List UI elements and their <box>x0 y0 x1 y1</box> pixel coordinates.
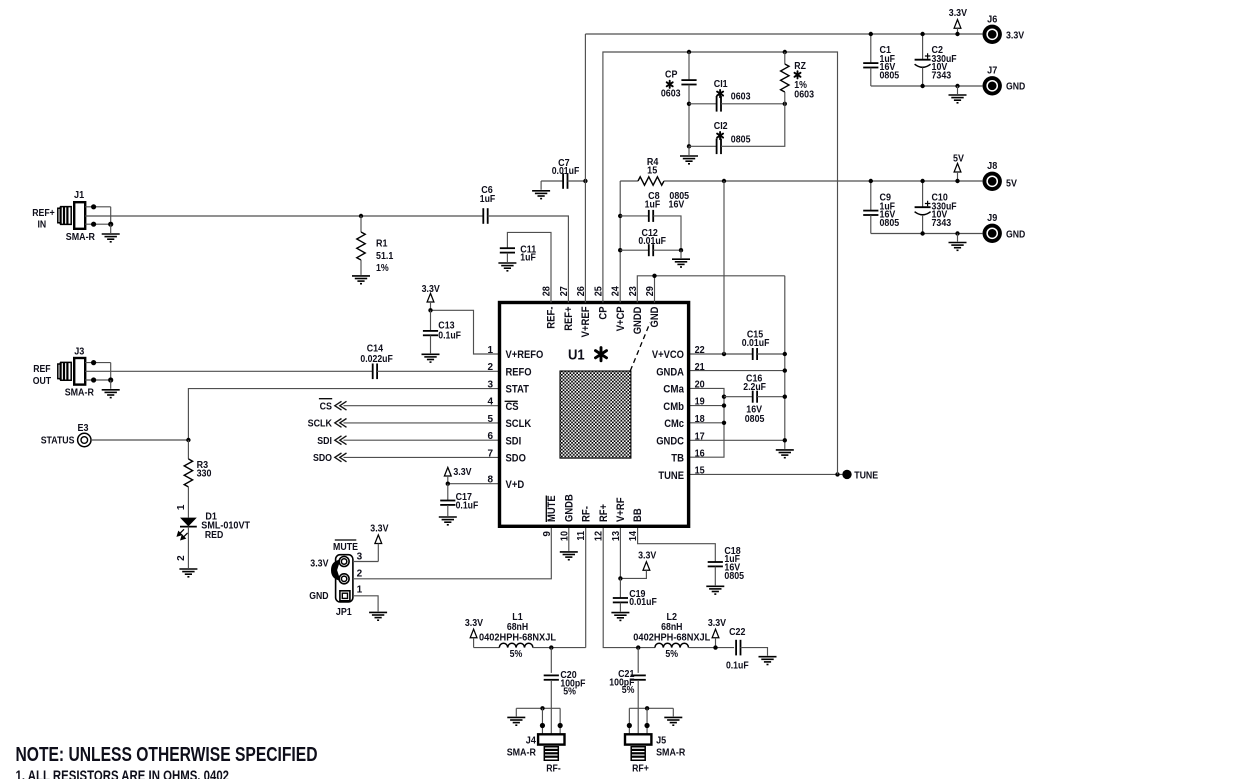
svg-text:0603: 0603 <box>661 88 681 99</box>
wire GNDD/GND to ground bus <box>637 276 785 303</box>
capacitor C9 <box>863 181 899 234</box>
svg-text:7: 7 <box>487 448 493 459</box>
wire REFO net J3 to C14 <box>85 370 373 372</box>
svg-text:SMA-R: SMA-R <box>66 232 96 243</box>
svg-text:22: 22 <box>695 345 705 356</box>
capacitor C15 <box>742 330 785 360</box>
wire ground bus right of U1 <box>784 276 786 441</box>
svg-text:5%: 5% <box>665 649 678 660</box>
ground at J9 <box>949 231 967 250</box>
svg-text:1uF: 1uF <box>645 200 661 211</box>
wire pin 13 V+RF <box>619 526 621 578</box>
svg-text:J8: J8 <box>987 161 997 172</box>
svg-text:0402HPH-68NXJL: 0402HPH-68NXJL <box>633 632 710 643</box>
U1 pin 18 name CMc <box>664 414 705 430</box>
svg-text:3: 3 <box>357 552 363 563</box>
junction GNDC to bus <box>783 438 787 442</box>
svg-text:2: 2 <box>176 555 187 561</box>
svg-text:3.3V: 3.3V <box>465 618 483 629</box>
svg-text:SCLK: SCLK <box>506 418 532 430</box>
junction C2 bottom <box>920 84 924 88</box>
U1 pin 19 name CMb <box>663 397 705 413</box>
svg-text:1: 1 <box>487 345 493 356</box>
junction pin29 <box>652 274 656 278</box>
svg-text:RF+: RF+ <box>632 763 649 774</box>
svg-text:2: 2 <box>487 362 493 373</box>
svg-text:V+VCO: V+VCO <box>652 349 684 361</box>
connector J1 SMA-R <box>32 190 120 243</box>
connector J3 SMA-R <box>33 346 120 398</box>
svg-text:13: 13 <box>611 531 622 541</box>
op-amp U1 chip body <box>500 303 689 527</box>
wire pin 1 V+REFO <box>431 310 500 354</box>
wire pin 11 RF- <box>585 526 587 647</box>
svg-text:BB: BB <box>632 508 644 522</box>
svg-text:16V: 16V <box>669 200 685 211</box>
wire 5V bottom rail to J9 <box>871 233 983 235</box>
resistor R4 <box>620 157 982 185</box>
U1 pin 6 name SDI <box>487 431 521 447</box>
svg-text:U1: U1 <box>568 347 585 364</box>
svg-text:TB: TB <box>671 453 684 465</box>
svg-text:0.01uF: 0.01uF <box>638 236 666 247</box>
svg-text:51.1: 51.1 <box>376 251 394 262</box>
svg-text:CP: CP <box>665 69 678 80</box>
svg-text:7343: 7343 <box>932 71 952 82</box>
svg-text:REF-: REF- <box>546 306 558 329</box>
U1 pin 11 name RF- <box>576 506 592 541</box>
wire 3.3V bottom rail to J7 <box>871 85 983 87</box>
svg-text:10: 10 <box>559 531 570 541</box>
svg-text:CMb: CMb <box>663 401 684 413</box>
connector J5 SMA-R <box>625 706 686 774</box>
wire E3 to R3 junction <box>91 439 188 441</box>
inductor L1 <box>474 612 586 660</box>
junction V+VCO supply tap <box>722 352 726 356</box>
svg-text:V+D: V+D <box>506 479 525 491</box>
svg-text:3.3V: 3.3V <box>638 550 656 561</box>
svg-text:STAT: STAT <box>506 384 530 396</box>
svg-text:6: 6 <box>487 431 493 442</box>
U1 pin 3 name STAT <box>487 380 529 396</box>
svg-text:1: 1 <box>357 585 363 596</box>
svg-text:REFO: REFO <box>506 366 532 378</box>
junction C21 top <box>636 645 640 649</box>
terminal E3 <box>41 423 91 447</box>
svg-text:14: 14 <box>628 531 639 541</box>
capacitor C20 <box>544 648 586 735</box>
svg-text:0.1uF: 0.1uF <box>456 500 479 511</box>
junction C20 top <box>549 645 553 649</box>
U1 GND pad dashed pointer <box>630 323 650 371</box>
junction CP cap top <box>687 50 691 54</box>
wire pin 8 V+D <box>448 483 500 485</box>
U1 pin 5 name SCLK <box>487 414 531 430</box>
power 3.3V arrow at pin 1 <box>422 284 440 310</box>
svg-text:1: 1 <box>176 504 187 510</box>
svg-text:3.3V: 3.3V <box>1006 30 1024 41</box>
svg-text:16: 16 <box>695 448 705 459</box>
svg-text:SMA-R: SMA-R <box>65 388 95 399</box>
svg-text:J5: J5 <box>656 736 666 747</box>
svg-text:5%: 5% <box>510 649 523 660</box>
U1 pin 17 name GNDC <box>656 431 705 447</box>
svg-text:0805: 0805 <box>880 218 900 229</box>
capacitor C6 <box>480 185 496 224</box>
svg-text:SMA-R: SMA-R <box>507 747 537 758</box>
svg-text:TUNE: TUNE <box>658 470 684 482</box>
U1 pin 9 name MUTE <box>542 495 558 536</box>
capacitor C10 <box>915 181 957 234</box>
svg-text:12: 12 <box>594 531 605 541</box>
wire C14 to pin 2 <box>377 370 499 372</box>
svg-text:0.01uF: 0.01uF <box>629 597 657 608</box>
wire pin 21 GNDA <box>689 370 785 372</box>
wire pin 12 RF+ <box>603 526 655 647</box>
svg-text:1. ALL RESISTORS ARE IN OHMS,: 1. ALL RESISTORS ARE IN OHMS, 0402 <box>16 769 230 780</box>
U1 pin 28 name REF- <box>542 286 558 329</box>
power 3.3V arrow at pin 13 <box>620 550 656 578</box>
svg-text:SDI: SDI <box>506 435 522 447</box>
junction RZ top <box>783 50 787 54</box>
svg-text:1uF: 1uF <box>480 194 496 205</box>
U1 exposed pad hatch <box>560 371 631 458</box>
junction C19 top <box>618 576 622 580</box>
U1 pin 20 name CMa <box>663 380 705 396</box>
svg-text:GNDD: GNDD <box>632 306 644 334</box>
capacitor C17 <box>439 484 479 525</box>
svg-text:21: 21 <box>695 362 705 373</box>
svg-text:JP1: JP1 <box>336 607 352 618</box>
svg-text:REF+: REF+ <box>32 208 55 219</box>
svg-text:0805: 0805 <box>724 571 744 582</box>
wire pin 19 CMb <box>689 405 724 407</box>
svg-text:RED: RED <box>205 530 223 541</box>
capacitor C8 <box>618 191 689 250</box>
svg-text:0.022uF: 0.022uF <box>360 354 392 365</box>
svg-text:J6: J6 <box>987 14 997 25</box>
capacitor C21 <box>609 648 646 735</box>
U1 pin 2 name REFO <box>487 362 531 378</box>
svg-text:J1: J1 <box>74 190 84 201</box>
svg-text:V+RF: V+RF <box>615 497 627 522</box>
power 3.3V arrow at L2/C22 <box>708 618 726 650</box>
power 5V arrow at J8 <box>953 153 964 183</box>
svg-text:MUTE: MUTE <box>546 495 558 522</box>
junction C9 top <box>869 179 873 183</box>
wire C6 to pin 27 <box>488 216 569 303</box>
wire V+CP pin 24 vertical <box>619 181 621 303</box>
svg-text:NOTE: UNLESS OTHERWISE SPECIFI: NOTE: UNLESS OTHERWISE SPECIFIED <box>16 744 318 766</box>
svg-text:J7: J7 <box>987 66 997 77</box>
power 3.3V arrow at J6 <box>949 8 967 36</box>
U1 pin 21 name GNDA <box>656 362 705 378</box>
power 3.3V arrow at pin 8 <box>444 467 471 484</box>
U1 pin 7 name SDO <box>487 448 525 464</box>
svg-text:0603: 0603 <box>794 90 814 101</box>
svg-text:CMc: CMc <box>664 418 684 430</box>
wire pin 17 GNDC <box>689 439 785 441</box>
connector J4 SMA-R <box>507 706 565 774</box>
svg-text:CS: CS <box>320 401 333 412</box>
wire GND pin 29 stub <box>654 276 656 303</box>
svg-text:CI1: CI1 <box>714 79 728 90</box>
svg-text:1%: 1% <box>376 263 389 274</box>
capacitor C22 <box>726 627 777 671</box>
junction C1 top <box>869 32 873 36</box>
svg-text:R1: R1 <box>376 239 388 250</box>
svg-text:17: 17 <box>695 431 705 442</box>
capacitor C16 <box>722 374 785 425</box>
svg-text:2: 2 <box>357 568 363 579</box>
ground at J7 <box>949 84 967 103</box>
svg-text:5V: 5V <box>1006 178 1017 189</box>
U1 pin 8 name V+D <box>487 475 524 491</box>
wire loop filter box (CP pin up, top rail, down to TUNE) <box>603 52 838 474</box>
svg-text:RZ: RZ <box>794 61 806 72</box>
svg-text:GND: GND <box>1006 82 1025 93</box>
svg-text:0805: 0805 <box>745 414 765 425</box>
junction CMb <box>722 403 726 407</box>
connector J7 <box>983 66 1026 96</box>
junction C7 to V+REF line <box>583 179 587 183</box>
junction CP/CI1 <box>687 102 691 106</box>
wire V+REF pin 26 to 3.3V rail <box>584 34 586 303</box>
wire REF+ net J1 to C6 <box>85 215 483 217</box>
wire pin 22 V+VCO stub <box>689 353 753 355</box>
wire V+VCO supply vertical <box>723 181 725 354</box>
capacitor CP <box>661 52 697 146</box>
junction C10 bottom <box>920 231 924 235</box>
svg-text:0.01uF: 0.01uF <box>742 338 770 349</box>
svg-text:5V: 5V <box>953 153 964 164</box>
capacitor CI2 <box>687 104 785 154</box>
svg-text:0.1uF: 0.1uF <box>438 330 461 341</box>
svg-text:REF: REF <box>33 364 50 375</box>
svg-text:CMa: CMa <box>663 384 685 396</box>
U1 pin 14 name BB <box>628 508 644 541</box>
U1 pin 22 name V+VCO <box>652 345 705 361</box>
junction C16 to bus <box>783 395 787 399</box>
svg-text:SMA-R: SMA-R <box>656 747 686 758</box>
connector J9 <box>983 213 1026 243</box>
wire STAT pin 3 <box>188 389 499 440</box>
U1 pin 25 name CP <box>593 286 609 320</box>
svg-text:5: 5 <box>487 414 493 425</box>
svg-text:C22: C22 <box>729 627 746 638</box>
jumper JP1 <box>309 540 362 618</box>
svg-text:9: 9 <box>542 531 553 537</box>
wire pin 15 TUNE <box>689 473 843 475</box>
U1 pin 29 name GND <box>645 286 661 328</box>
svg-text:RF+: RF+ <box>598 504 610 522</box>
diode D1 LED <box>176 504 250 577</box>
junction TUNE <box>835 472 839 476</box>
junction C17 top <box>446 482 450 486</box>
connector J6 <box>983 14 1025 44</box>
svg-text:TUNE: TUNE <box>854 471 878 482</box>
signal SDO chevron <box>313 453 500 464</box>
U1 pin 26 name V+REF <box>576 286 592 338</box>
svg-text:GND: GND <box>1006 229 1025 240</box>
inductor L2 <box>633 612 734 660</box>
svg-text:STATUS: STATUS <box>41 436 75 447</box>
svg-text:8: 8 <box>487 475 493 486</box>
U1 pin 15 name TUNE <box>658 466 705 482</box>
svg-text:RF-: RF- <box>580 506 592 522</box>
junction CI1/RZ <box>783 102 787 106</box>
signal SDI chevron <box>317 436 499 447</box>
svg-text:SDI: SDI <box>317 436 332 447</box>
svg-text:V+REFO: V+REFO <box>506 349 544 361</box>
svg-text:0402HPH-68NXJL: 0402HPH-68NXJL <box>479 632 556 643</box>
svg-text:CI2: CI2 <box>714 121 728 132</box>
junction STAT/E3/R3 <box>186 438 190 442</box>
signal SCLK chevron <box>308 419 500 430</box>
capacitor C7 <box>532 158 585 199</box>
svg-text:0.01uF: 0.01uF <box>552 166 580 177</box>
connector J8 <box>983 161 1018 191</box>
capacitor C11 <box>498 232 551 302</box>
svg-text:V+REF: V+REF <box>580 306 592 337</box>
svg-text:J9: J9 <box>987 213 997 224</box>
svg-text:OUT: OUT <box>33 376 51 387</box>
capacitor C13 <box>422 310 462 362</box>
svg-text:1uF: 1uF <box>520 252 536 263</box>
capacitor C19 <box>611 578 656 620</box>
svg-text:3.3V: 3.3V <box>708 618 726 629</box>
capacitor C18 <box>638 526 745 594</box>
svg-text:CS: CS <box>506 401 519 413</box>
ground at bus bottom <box>776 440 794 457</box>
svg-text:GNDB: GNDB <box>563 494 575 522</box>
svg-text:3.3V: 3.3V <box>310 559 328 570</box>
resistor RZ <box>781 52 815 104</box>
junction R1 top <box>359 214 363 218</box>
svg-text:RF-: RF- <box>546 763 561 774</box>
ground below CP/CI2 <box>680 146 698 164</box>
svg-text:18: 18 <box>695 414 705 425</box>
U1 pin 13 name V+RF <box>611 497 627 541</box>
U1 pin 24 name V+CP <box>611 286 627 331</box>
svg-text:2.2uF: 2.2uF <box>743 382 766 393</box>
junction GNDA to bus <box>783 368 787 372</box>
U1 pin 12 name RF+ <box>594 504 610 541</box>
svg-text:CP: CP <box>598 307 610 320</box>
capacitor C12 <box>618 228 681 256</box>
power 3.3V arrow at L1 <box>465 618 483 648</box>
U1 pin 27 name REF+ <box>559 286 575 331</box>
svg-text:15: 15 <box>647 165 657 176</box>
U1 pin 1 name V+REFO <box>487 345 543 361</box>
svg-text:J4: J4 <box>526 736 536 747</box>
svg-text:330: 330 <box>197 469 212 480</box>
svg-text:SDO: SDO <box>506 453 526 465</box>
ground at pin 10 GNDB <box>560 526 578 559</box>
wire JP1 pin 2 to U1 pin 9 <box>353 526 551 579</box>
U1 pin 10 name GNDB <box>559 494 575 541</box>
svg-text:3: 3 <box>487 380 493 391</box>
terminal TUNE <box>842 470 878 482</box>
svg-text:0805: 0805 <box>731 134 751 145</box>
svg-text:E3: E3 <box>78 423 89 434</box>
svg-text:7343: 7343 <box>932 218 952 229</box>
svg-text:5%: 5% <box>622 685 635 696</box>
svg-text:SCLK: SCLK <box>308 419 333 430</box>
capacitor C14 <box>360 344 392 380</box>
svg-text:5%: 5% <box>563 686 576 697</box>
resistor R1 <box>352 216 394 284</box>
junction R4 to V+VCO line <box>722 179 726 183</box>
svg-text:J3: J3 <box>74 346 84 357</box>
svg-text:REF+: REF+ <box>563 307 575 331</box>
wire pin 18 CMc <box>689 422 724 424</box>
svg-text:4: 4 <box>487 397 493 408</box>
svg-text:GNDC: GNDC <box>656 436 684 448</box>
U1 pin 4 name CS <box>487 397 518 413</box>
svg-text:0805: 0805 <box>880 71 900 82</box>
svg-text:3.3V: 3.3V <box>949 8 967 19</box>
svg-text:GND: GND <box>649 306 661 327</box>
wire JP1 pin 1 to ground <box>353 596 387 620</box>
svg-text:MUTE: MUTE <box>333 542 358 553</box>
signal CS chevron <box>319 399 500 413</box>
power 3.3V arrow at JP1 pin 3 <box>370 524 388 562</box>
svg-text:11: 11 <box>576 531 587 541</box>
junction C2 top <box>920 32 924 36</box>
capacitor C2 <box>915 34 957 86</box>
U1 pin 23 name GNDD <box>628 286 644 334</box>
svg-text:0.1uF: 0.1uF <box>726 660 749 671</box>
svg-text:GNDA: GNDA <box>656 366 684 378</box>
capacitor C1 <box>863 34 899 86</box>
wire JP1 pin 3 <box>353 561 378 563</box>
U1 pin 16 name TB <box>671 448 705 464</box>
svg-text:19: 19 <box>695 397 705 408</box>
junction C10 top <box>920 179 924 183</box>
wire 3.3V rail <box>585 33 982 35</box>
capacitor CI1 <box>689 79 785 112</box>
svg-text:V+CP: V+CP <box>615 307 627 332</box>
svg-text:IN: IN <box>37 219 46 230</box>
junction CMc <box>722 421 726 425</box>
junction C13 top <box>428 308 432 312</box>
note text <box>16 744 318 784</box>
svg-text:20: 20 <box>695 380 705 391</box>
junction C15 to bus <box>783 352 787 356</box>
svg-text:GND: GND <box>309 591 328 602</box>
wire CM bracket pins 20/16 <box>689 388 724 457</box>
svg-text:3.3V: 3.3V <box>370 524 388 535</box>
svg-text:15: 15 <box>695 466 705 477</box>
svg-text:3.3V: 3.3V <box>453 467 471 478</box>
svg-text:SDO: SDO <box>313 453 332 464</box>
resistor R3 <box>184 440 212 518</box>
svg-text:0603: 0603 <box>731 91 751 102</box>
ground below C8/C12 <box>672 248 690 267</box>
